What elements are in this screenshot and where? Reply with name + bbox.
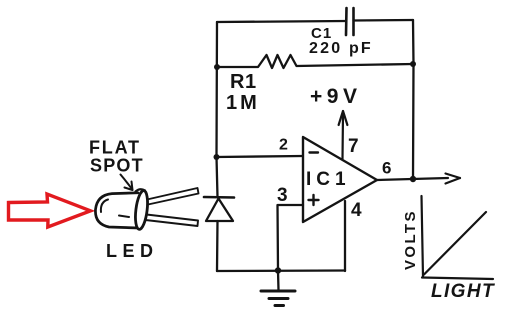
graph light axis: [422, 278, 493, 280]
wire: left vertical rail lower (diode to bottom rail): [216, 221, 219, 271]
svg-text:220 pF: 220 pF: [309, 40, 373, 57]
LED body dome: [95, 193, 139, 228]
LED flange rim (flat spot): [134, 190, 150, 230]
junction: output node: [410, 176, 416, 182]
resistor R1: [217, 55, 413, 68]
wire: pin 4 to ground rail: [344, 201, 346, 271]
LED dome highlight dash: [119, 216, 129, 218]
svg-text:+9V: +9V: [310, 85, 361, 108]
power supply arrow to pin 7: [339, 111, 348, 159]
wire: right vertical feedback rail: [412, 20, 415, 179]
graph response line: [424, 212, 486, 275]
junction: R1 left node: [214, 64, 220, 70]
LED flat-spot tab: [136, 189, 146, 191]
diode D1 cathode bar: [204, 196, 234, 199]
op-amp plus input sign: [309, 195, 319, 205]
op-amp IC1: [303, 137, 377, 222]
op-amp minus input sign: [310, 151, 319, 153]
svg-text:3: 3: [277, 185, 288, 206]
svg-text:LED: LED: [106, 241, 159, 261]
svg-text:FLAT: FLAT: [89, 138, 141, 158]
wire: top feedback (left segment to C1): [217, 21, 346, 22]
LED upper lead: [147, 188, 199, 205]
wire: pin 2 input from node A: [216, 156, 302, 157]
LED dome highlight curve: [101, 200, 108, 213]
wire: pin 3 input to ground rail: [278, 205, 304, 270]
svg-text:VOLTS: VOLTS: [402, 209, 419, 270]
svg-text:IC1: IC1: [306, 169, 351, 190]
wire: top feedback (C1 to right corner): [354, 19, 414, 22]
diode D1 triangle: [206, 199, 233, 222]
svg-text:R1: R1: [230, 71, 257, 93]
junction: ground node: [275, 267, 281, 273]
wire: bottom ground rail: [217, 269, 345, 272]
ground symbol: [261, 271, 295, 306]
svg-text:LIGHT: LIGHT: [431, 281, 495, 302]
red pointer arrow at LED: [9, 194, 91, 227]
LED lower lead: [146, 215, 199, 227]
svg-text:1M: 1M: [226, 92, 260, 114]
graph volts axis: [422, 196, 424, 277]
svg-text:6: 6: [382, 159, 391, 178]
annotation arrow FLAT SPOT to LED: [121, 175, 133, 191]
wire: output from pin 6 with arrow: [377, 174, 460, 184]
junction: node A (diode / pin2): [214, 154, 220, 160]
wire: left vertical rail upper: [217, 22, 218, 197]
junction: R1 right node: [410, 61, 416, 67]
svg-text:2: 2: [279, 137, 288, 154]
svg-text:4: 4: [351, 200, 362, 221]
svg-text:SPOT: SPOT: [90, 156, 144, 176]
capacitor C1: [346, 8, 354, 35]
svg-text:7: 7: [348, 136, 359, 157]
